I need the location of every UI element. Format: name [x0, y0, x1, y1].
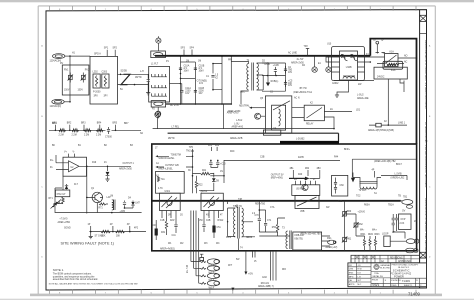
svg-text:K1/F: K1/F — [391, 70, 396, 72]
fuse F1 Z — [121, 74, 130, 84]
K1 pins — [377, 57, 417, 64]
caption column tick — [420, 32, 427, 34]
svg-text:TP: TP — [373, 40, 376, 42]
svg-text:BR5: BR5 — [113, 123, 118, 125]
right inner wire — [352, 159, 416, 177]
svg-text:RT1: RT1 — [49, 198, 54, 200]
T4 taps — [228, 205, 255, 251]
opto U10B inner — [340, 51, 358, 80]
svg-text:10V: 10V — [288, 85, 293, 87]
svg-text:2.0K: 2.0K — [400, 223, 405, 225]
svg-text:+C30: +C30 — [220, 164, 226, 166]
svg-text:120VAC(N): 120VAC(N) — [50, 105, 62, 108]
svg-text:LP: LP — [392, 232, 395, 234]
OVP caps — [392, 218, 395, 220]
op-amp U2 box — [63, 157, 87, 176]
svg-text:KRB-100: KRB-100 — [295, 235, 305, 237]
svg-text:L-5U: L-5U — [234, 123, 239, 125]
capacitor C10A — [179, 68, 182, 70]
mid bottom bar — [168, 133, 339, 142]
svg-text:TM2: TM2 — [186, 151, 191, 153]
gnd arrow D5 — [267, 62, 269, 82]
TP stub box — [200, 254, 203, 257]
svg-text:+C80: +C80 — [120, 211, 126, 213]
svg-text:T1A: T1A — [161, 178, 166, 181]
out ovals — [406, 239, 415, 244]
svg-text:+C4B: +C4B — [273, 65, 279, 67]
svg-text:3R: 3R — [168, 215, 171, 217]
svg-text:SGND: SGND — [64, 228, 71, 230]
svg-text:TP: TP — [381, 40, 384, 42]
transistor Q5 — [255, 113, 261, 119]
divider resistor R13 — [97, 129, 104, 132]
transformer T3 — [286, 231, 288, 249]
svg-text:PRI2: PRI2 — [226, 237, 232, 239]
svg-text:RV: RV — [60, 63, 64, 65]
svg-text:2R: 2R — [294, 179, 297, 181]
varistor RV1 — [69, 73, 71, 83]
filter L1 box — [149, 66, 170, 102]
svg-text:10kV: 10kV — [199, 70, 205, 72]
sheet bottom scanner bands — [30, 294, 442, 297]
transistor Q6 — [302, 184, 308, 190]
svg-text:SPD A: SPD A — [94, 53, 101, 56]
driver U3 — [160, 193, 181, 210]
svg-text:71409: 71409 — [408, 291, 421, 296]
svg-text:BR3: BR3 — [81, 123, 86, 125]
divider bus — [49, 129, 141, 131]
svg-text:120VAC(H): 120VAC(H) — [50, 59, 62, 62]
svg-text:L7 REL: L7 REL — [172, 127, 180, 129]
svg-text:+GN: +GN — [248, 274, 253, 276]
cap C80 — [124, 201, 126, 209]
svg-text:R40: R40 — [298, 174, 303, 176]
svg-text:C70: C70 — [255, 215, 260, 217]
emphasized top segment — [280, 141, 339, 144]
svg-text:L202: L202 — [93, 72, 99, 74]
divider resistor R10 — [59, 129, 66, 132]
svg-text:LINE 1: LINE 1 — [398, 122, 406, 124]
drawing frame border — [46, 10, 427, 290]
svg-text:SITE WIRING FAULT (NOTE 1): SITE WIRING FAULT (NOTE 1) — [61, 242, 115, 246]
U10B feed — [326, 56, 332, 62]
svg-text:AREF+V/B2: AREF+V/B2 — [58, 221, 71, 224]
frame zone tick marks — [50, 6, 416, 294]
sense stubs — [91, 226, 130, 232]
op-amp subbox — [156, 172, 185, 194]
svg-text:C7000: C7000 — [105, 137, 112, 139]
capacitor C4 — [274, 67, 276, 76]
svg-text:AREF+4V/B: AREF+4V/B — [230, 137, 243, 140]
resistor R70 — [62, 197, 64, 204]
svg-text:Q2/U4: Q2/U4 — [201, 191, 208, 193]
svg-text:SHEET 1: SHEET 1 — [404, 285, 413, 287]
svg-text:TP2: TP2 — [304, 46, 309, 48]
svg-text:K1A: K1A — [390, 50, 395, 53]
resistor R50 — [276, 224, 278, 232]
svg-text:W/L4: W/L4 — [209, 287, 215, 289]
svg-text:(REF+BCD2-T/G1: (REF+BCD2-T/G1 — [293, 92, 312, 94]
capacitor C5 — [285, 80, 287, 87]
svg-text:10V: 10V — [199, 93, 204, 95]
capacitor C1 — [212, 64, 214, 90]
svg-text:R19: R19 — [92, 162, 97, 164]
caption column inner line — [419, 10, 421, 288]
fault relay box — [55, 190, 69, 197]
cap bank rail left — [180, 56, 182, 104]
svg-text:4S: 4S — [206, 215, 209, 217]
svg-text:R60A: R60A — [364, 204, 370, 207]
svg-text:RIO-GN: RIO-GN — [261, 283, 270, 285]
svg-text:XTE FLT: XTE FLT — [57, 194, 67, 196]
svg-text:OUTPUT 1: OUTPUT 1 — [123, 163, 135, 165]
fuse F2 — [369, 124, 407, 126]
converter box KRB — [293, 232, 322, 250]
svg-text:TB: TB — [398, 196, 401, 198]
MOV stub — [376, 41, 379, 44]
svg-text:AREF+40E: AREF+40E — [357, 97, 369, 100]
svg-text:4R1: 4R1 — [208, 145, 213, 147]
svg-text:REF+7B0: REF+7B0 — [255, 203, 266, 205]
svg-text:R62: R62 — [359, 224, 364, 226]
svg-text:R.W: R.W — [358, 269, 362, 271]
svg-text:4P: 4P — [372, 169, 375, 171]
cap C30 — [217, 160, 219, 167]
svg-text:TB1A: TB1A — [388, 204, 394, 207]
svg-text:GND2: GND2 — [332, 83, 339, 85]
svg-text:1M: 1M — [198, 61, 201, 63]
registration X-box bottom right — [420, 252, 427, 258]
svg-text:C1B: C1B — [160, 220, 165, 222]
svg-text:OUTPUT A/B: OUTPUT A/B — [165, 164, 179, 167]
registration X-box top right — [420, 15, 427, 21]
svg-text:3PX: 3PX — [94, 96, 99, 98]
svg-text:2.2M: 2.2M — [96, 134, 101, 136]
ST GND — [90, 232, 92, 237]
resistor R71 — [99, 203, 106, 205]
svg-text:C2B: C2B — [206, 220, 211, 222]
ground GN — [245, 251, 247, 272]
SPD module 1 — [93, 74, 100, 88]
svg-text:LM7: LM7 — [135, 203, 140, 205]
svg-text:L-H: L-H — [140, 71, 144, 73]
svg-text:SP2: SP2 — [113, 48, 118, 50]
varistor RV12 — [355, 221, 357, 230]
svg-text:C3B: C3B — [260, 157, 265, 159]
divider resistor R12 — [85, 129, 92, 132]
svg-text:APPD: APPD — [349, 283, 355, 286]
svg-text:R/W2: R/W2 — [218, 220, 224, 222]
svg-text:APPROVED: APPROVED — [398, 260, 411, 263]
svg-text:RIO: RIO — [282, 269, 286, 271]
cap C40 electrolytic — [155, 229, 158, 236]
svg-text:MA+: MA+ — [372, 229, 377, 232]
svg-text:SONOR LEVEL: SONOR LEVEL — [158, 158, 175, 160]
svg-text:AREF+4(H)/5/52/(A)(V/B): AREF+4(H)/5/52/(A)(V/B) — [368, 129, 394, 132]
LED DS1 — [328, 240, 336, 244]
svg-text:4R2: 4R2 — [215, 145, 220, 147]
svg-text:RCB(L): RCB(L) — [271, 81, 279, 83]
K1 contact box — [385, 54, 399, 67]
svg-text:4B1: 4B1 — [290, 168, 295, 170]
svg-text:U5B: U5B — [300, 211, 305, 213]
svg-text:4.7K: 4.7K — [158, 188, 163, 190]
svg-text:2.2M: 2.2M — [72, 134, 77, 136]
svg-text:AREF+LEVEL: AREF+LEVEL — [158, 168, 173, 171]
filter out wire — [170, 83, 182, 85]
main internal bus — [152, 200, 401, 202]
converter corner wire — [224, 160, 340, 183]
neutral arrow — [252, 107, 265, 109]
fault bus — [97, 197, 133, 212]
U10B right wires — [365, 57, 378, 62]
svg-text:T4P: T4P — [238, 199, 243, 201]
cap C51 — [212, 226, 215, 233]
U5 pins — [296, 181, 316, 185]
svg-text:SP4: SP4 — [190, 47, 195, 49]
op-amp triangle — [69, 161, 80, 172]
svg-text:ST GND: ST GND — [95, 235, 104, 237]
svg-text:5A: 5A — [120, 88, 123, 91]
svg-text:BY NARA DATE 7-1-99 REPRODUCED: BY NARA DATE 7-1-99 REPRODUCED AT NATION… — [424, 122, 428, 188]
filter combs — [152, 74, 168, 77]
svg-text:RELAY: RELAY — [306, 122, 314, 125]
opto U10B outer — [332, 47, 365, 81]
svg-text:L1 FLT: L1 FLT — [151, 64, 159, 66]
earth electrode E1 — [312, 67, 317, 72]
svg-text:4B2: 4B2 — [305, 168, 310, 170]
svg-text:AC LINE: AC LINE — [288, 52, 297, 55]
divider cap C7000 — [108, 127, 110, 134]
T1 core — [252, 63, 254, 91]
bus test stub — [306, 49, 309, 56]
svg-text:R31: R31 — [161, 232, 166, 234]
svg-text:NOTE 1.: NOTE 1. — [53, 268, 64, 272]
base rail — [86, 166, 88, 213]
wires fuse to filter — [118, 74, 149, 84]
svg-text:24VDC: 24VDC — [377, 77, 385, 79]
T1 wires — [231, 61, 268, 104]
svg-text:POWER: POWER — [394, 274, 404, 278]
svg-text:OUTPUT 5V: OUTPUT 5V — [271, 174, 284, 176]
svg-text:NC: NC — [404, 62, 408, 64]
svg-text:C51: C51 — [217, 227, 222, 229]
revision table — [351, 255, 420, 262]
svg-text:4B3: 4B3 — [317, 168, 322, 170]
output resistors RM1-3 — [363, 239, 365, 246]
svg-text:R61: R61 — [347, 239, 352, 241]
resistor R74 — [116, 230, 125, 233]
cap bank bottom corner wire — [153, 104, 224, 129]
svg-text:W/L T/B: W/L T/B — [185, 265, 187, 274]
svg-text:3S: 3S — [180, 215, 183, 217]
svg-text:C71: C71 — [267, 220, 272, 222]
svg-text:MA-: MA- — [360, 229, 364, 232]
svg-text:TRA: TRA — [374, 272, 379, 275]
svg-text:RM1: RM1 — [361, 234, 367, 236]
SPD stubs — [107, 50, 115, 57]
svg-text:C41: C41 — [172, 235, 177, 237]
svg-text:4W/B: 4W/B — [298, 157, 304, 159]
svg-text:TONE/TM: TONE/TM — [171, 154, 181, 156]
zener — [107, 166, 109, 179]
svg-text:AREF+2V50: AREF+2V50 — [119, 167, 133, 170]
svg-text:V-: V- — [73, 152, 75, 154]
svg-text:T2B: T2B — [338, 201, 343, 203]
U5 box — [292, 185, 320, 196]
connector ovals TB2 — [207, 259, 219, 264]
center bottom pointer mark — [231, 288, 234, 291]
line cap at filter edge — [147, 80, 150, 82]
svg-text:3P: 3P — [127, 224, 130, 226]
U10B bottom wire — [337, 81, 349, 96]
svg-text:W/T: W/T — [228, 265, 233, 267]
svg-text:2.2M: 2.2M — [59, 134, 64, 136]
U4 bottom module — [263, 130, 280, 135]
svg-text:C303: C303 — [102, 72, 108, 74]
svg-text:10V: 10V — [185, 93, 190, 95]
svg-text:BT-7W: BT-7W — [300, 88, 308, 90]
svg-text:BOLT: BOLT — [396, 164, 402, 166]
input vertical wire — [69, 56, 71, 102]
vertical signal wire — [192, 151, 194, 193]
svg-text:RM3: RM3 — [375, 234, 381, 236]
sheet top scanner band — [0, 0, 474, 2]
svg-text:RV1: RV1 — [64, 70, 69, 72]
svg-text:U10B: U10B — [346, 67, 352, 69]
resistor R40 — [289, 177, 305, 179]
svg-text:U301: U301 — [165, 191, 171, 193]
caps box mid-right — [332, 175, 348, 196]
svg-text:10V: 10V — [288, 72, 293, 74]
svg-text:BRY: BRY — [124, 123, 129, 125]
svg-text:R71: R71 — [99, 207, 104, 209]
svg-text:R60: R60 — [347, 211, 352, 213]
svg-text:IN-: IN- — [50, 167, 53, 169]
W/L bus wires — [191, 211, 201, 284]
MOV box — [62, 65, 89, 95]
svg-text:ELECTRIC: ELECTRIC — [380, 267, 391, 269]
svg-text:R22: R22 — [198, 184, 203, 186]
U10B pins — [332, 57, 365, 72]
svg-text:DS1: DS1 — [327, 238, 332, 240]
varistor RV10 — [344, 209, 346, 220]
plug P1 — [151, 51, 166, 58]
svg-text:DECLASSIFIED E.O. 12958 SECT 3: DECLASSIFIED E.O. 12958 SECT 3.3 NND PRO… — [424, 40, 428, 109]
svg-text:SP1: SP1 — [104, 48, 109, 50]
svg-text:1N: 1N — [220, 171, 223, 173]
stubs SP3 SP4 — [184, 50, 192, 57]
lower section enclosure — [152, 144, 417, 251]
capacitor C10B — [194, 68, 197, 70]
svg-text:3PY: 3PY — [104, 96, 109, 98]
svg-text:SCALE: SCALE — [372, 284, 379, 287]
svg-text:LOOP: LOOP — [382, 233, 389, 235]
svg-text:SP3: SP3 — [181, 47, 186, 49]
svg-text:M.C: M.C — [358, 284, 362, 286]
svg-text:LD1: LD1 — [356, 110, 361, 112]
svg-text:RM2: RM2 — [368, 234, 374, 236]
capacitor C11B — [194, 90, 197, 92]
terminal T2 — [156, 111, 161, 116]
svg-text:MFG: MFG — [349, 276, 354, 278]
svg-text:71409: 71409 — [402, 279, 410, 283]
cap C70 — [258, 201, 260, 232]
svg-text:T/B2-T/C: T/B2-T/C — [233, 206, 243, 208]
resistor R73 — [101, 230, 110, 233]
svg-text:L-SU2: L-SU2 — [357, 95, 364, 97]
svg-text:DWG: DWG — [391, 285, 396, 287]
svg-text:30K: 30K — [116, 235, 121, 237]
stubs 4R — [212, 147, 218, 151]
svg-text:1M: 1M — [186, 61, 189, 63]
capacitor C2 — [285, 66, 287, 74]
terminal T1 — [156, 38, 161, 43]
svg-text:R50: R50 — [272, 227, 277, 229]
mid link — [181, 77, 196, 79]
svg-text:150V: 150V — [78, 90, 84, 92]
svg-text:FSCM NO: FSCM NO — [391, 280, 401, 282]
under U4B — [204, 211, 219, 219]
svg-text:AREF+4V(B2): AREF+4V(B2) — [160, 247, 175, 250]
svg-text:2.2M: 2.2M — [84, 134, 89, 136]
diode D10 — [66, 184, 68, 190]
svg-text:L-5U2: L-5U2 — [236, 120, 243, 122]
U4 box — [265, 96, 291, 133]
svg-text:KB(-7B): KB(-7B) — [295, 239, 303, 241]
svg-text:C40: C40 — [152, 225, 157, 227]
svg-text:FLT: FLT — [74, 184, 79, 186]
svg-text:(VREF)+L/B2: (VREF)+L/B2 — [391, 177, 405, 179]
GE monogram logo — [374, 264, 379, 269]
divider stubs — [54, 125, 56, 131]
svg-text:47A: 47A — [199, 82, 204, 85]
svg-text:METAL PH: METAL PH — [373, 275, 384, 278]
varistor RV2 — [82, 73, 84, 83]
svg-text:(4REF+106.4(B).7B2: (4REF+106.4(B).7B2 — [374, 161, 396, 163]
transformer T2 — [360, 187, 377, 189]
svg-text:AREF+2V50: AREF+2V50 — [228, 110, 242, 113]
svg-text:ARCHIVES DF-ST-99-05357 CND RE: ARCHIVES DF-ST-99-05357 CND RECORDS GP — [424, 198, 428, 258]
svg-text:AREF(+4V): AREF(+4V) — [326, 246, 338, 249]
svg-text:+7.5V/0: +7.5V/0 — [59, 218, 68, 220]
cap C50 — [203, 218, 205, 232]
svg-text:L-5U/B2: L-5U/B2 — [296, 139, 305, 141]
loop power box — [384, 236, 390, 247]
svg-text:ENG: ENG — [349, 273, 354, 275]
svg-text:AREF+4MB(.7): AREF+4MB(.7) — [258, 285, 274, 288]
transistor Q1 — [92, 192, 102, 202]
under U3 — [162, 211, 176, 219]
svg-text:BR2: BR2 — [67, 123, 72, 125]
svg-text:D5-B: D5-B — [265, 64, 271, 66]
svg-text:REVISIONS: REVISIONS — [390, 257, 403, 259]
svg-text:10kV: 10kV — [184, 70, 190, 72]
cap C31 — [211, 160, 218, 167]
svg-text:DR: DR — [349, 265, 353, 267]
title block bottom row — [371, 278, 427, 287]
input top wire — [70, 55, 90, 57]
svg-text:150V: 150V — [64, 90, 70, 92]
resistor R31 — [165, 221, 167, 229]
plug P2 — [151, 101, 165, 107]
capacitor C11A — [180, 90, 183, 92]
svg-text:NOTE ALL VALUES ARE TM 50 TB79: NOTE ALL VALUES ARE TM 50 TB7953 NO.7 10… — [49, 282, 138, 285]
rails — [262, 63, 286, 91]
svg-text:RV2: RV2 — [85, 70, 90, 72]
connector J1 — [53, 54, 65, 59]
svg-text:P-2000: P-2000 — [93, 91, 101, 93]
